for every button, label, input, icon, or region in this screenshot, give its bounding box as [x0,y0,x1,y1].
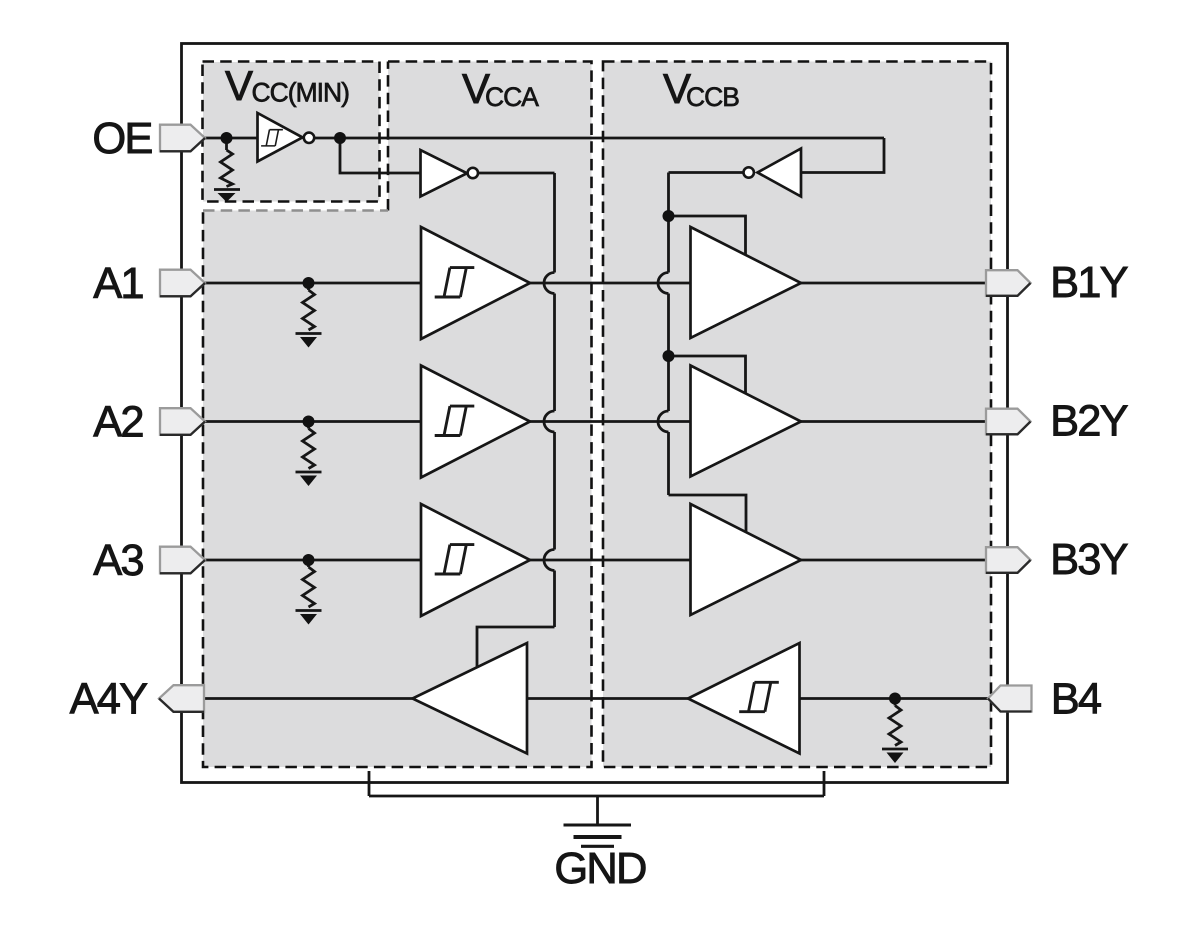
wire GND bracket left drop [368,771,371,796]
wire B4 input segment [800,697,989,700]
wire A3 row middle segment [530,559,691,562]
wire B2Y output segment [801,420,986,423]
svg-text:B4: B4 [1051,676,1101,724]
VCC(MIN) dashed border [203,62,380,202]
VCCA dashed border notch segment (gray) [203,209,388,212]
VCCA power-domain region fill [203,62,592,768]
Schmitt buffer A1 [421,227,530,339]
svg-text:CC(MIN): CC(MIN) [252,78,350,108]
node at OE pulldown [221,132,233,144]
wire B1Y output segment [801,282,986,285]
label VCC(MIN) [225,62,349,109]
svg-text:A1: A1 [93,260,143,308]
wire OE pin to inverter G1 input [205,137,257,140]
wire GND bracket horizontal [369,795,824,798]
inverter G2 (VCCA enable) [421,150,468,197]
svg-text:CCA: CCA [485,82,539,112]
ground symbol [564,825,632,846]
node after G1 output [334,132,346,144]
Schmitt buffer A2 [421,366,530,478]
VCCB dashed border [603,62,991,768]
wire A1 row middle segment [530,282,691,285]
node at A2 pulldown [303,416,315,428]
pulldown resistor at B4 [882,699,908,764]
wire B4 buffer to A4Y driver segment [528,697,689,700]
svg-text:B2Y: B2Y [1050,398,1129,446]
wire B1Y enable step [669,216,746,256]
VCCA dashed border [203,62,592,768]
output bubble G3 [744,167,754,177]
wire A4Y enable step [477,627,555,669]
pin B3Y [986,547,1031,573]
output driver B1 [691,227,802,338]
Schmitt buffer A3 [421,504,530,616]
wire hop over B2Y row [658,411,669,432]
inverter G3 (VCCB enable, left-pointing) [758,149,802,197]
wire G3 output to B-side enable vertical [669,171,744,174]
label VCCB [663,65,739,112]
svg-text:CCB: CCB [686,82,739,112]
pin A2 [160,408,205,435]
pulldown resistor at A1 [296,283,322,348]
svg-text:GND: GND [554,845,646,893]
hysteresis glyph B4 [739,682,779,711]
hysteresis glyph A2 [435,406,475,435]
VCCB power-domain region fill [603,62,991,768]
svg-text:B1Y: B1Y [1050,259,1129,307]
Schmitt buffer B4 (left-pointing) [688,643,800,754]
output driver B3 [691,504,802,615]
pin OE [160,125,205,152]
pin B2Y [986,409,1031,435]
pulldown resistor at A3 [296,560,322,625]
wire GND stem [596,796,599,825]
wire A2 row middle segment [530,420,691,423]
pulldown resistor at OE [214,138,240,202]
outer device box [182,44,1008,783]
wire A3 row input segment [205,559,421,562]
wire G2 output to enable vertical [478,172,555,175]
output bubble G2 [468,168,478,178]
wire GND bracket right drop [823,771,826,796]
node B1Y enable branch [663,210,675,222]
Schmitt inverter G1 (VCC(MIN) domain) [258,113,303,162]
wire node N2 branch down to G2 input [340,138,421,173]
wire A4Y output segment [204,697,413,700]
wire A2 row input segment [205,420,421,423]
pin A1 [160,270,205,297]
pin A3 [160,547,205,574]
output bubble G1 [304,133,314,143]
output driver B2 [691,366,802,477]
wire top net down to G3 input [801,138,884,173]
svg-text:OE: OE [92,115,152,163]
VCC(MIN) power-domain region fill [203,62,380,202]
svg-text:A3: A3 [93,537,143,585]
wire G1 output to node N2 and long top net [314,137,884,140]
hysteresis glyph A3 [435,545,475,574]
pin A4Y (output, points left) [159,685,204,712]
wire B2Y enable step [669,356,746,395]
wire B3Y enable step [669,495,747,533]
svg-text:V: V [225,62,253,109]
node at A1 pulldown [303,277,315,289]
wire hop over A1 row [544,273,555,294]
svg-text:B3Y: B3Y [1050,536,1129,584]
hysteresis glyph A1 [435,268,475,297]
pin B4 (input, points left) [988,686,1032,712]
node at B4 pulldown [889,693,901,705]
wire hop over A2 row [544,411,555,432]
wire B3Y output segment [801,559,986,562]
wire A1 row input segment [205,282,421,285]
wire hop over A3 row [544,550,555,571]
node B2Y enable branch [663,350,675,362]
pulldown resistor at A2 [296,422,322,487]
node at A3 pulldown [303,554,315,566]
wire B-side enable vertical (with hops) [667,173,670,496]
hysteresis glyph G1 [261,130,283,146]
label VCCA [462,65,539,112]
svg-text:A4Y: A4Y [70,676,149,724]
svg-text:A2: A2 [93,399,143,447]
pin B1Y [986,270,1031,296]
output driver A4 (left-pointing) [413,643,528,754]
wire A-side enable vertical (with hops) [553,173,556,627]
wire hop over B1Y row [658,273,669,294]
